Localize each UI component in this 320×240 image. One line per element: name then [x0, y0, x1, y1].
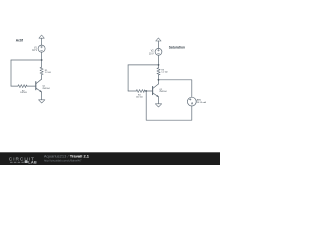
wire to R2 [11, 85, 18, 87]
svg-text:Saturation: Saturation [169, 46, 185, 50]
voltage source V1 [38, 45, 45, 52]
wire Q1 emitter to ground [41, 92, 43, 100]
svg-text:1.2 kΩ: 1.2 kΩ [161, 72, 168, 74]
wire R4 to Q2 base [145, 90, 152, 92]
wire top horizontal left loop [11, 59, 42, 61]
wire collector to ammeter [159, 80, 192, 97]
wire V2 to R3 [158, 55, 160, 68]
svg-text:V2: V2 [151, 51, 155, 53]
voltage source V2 [155, 48, 162, 55]
svg-text:1.2 kΩ: 1.2 kΩ [45, 72, 52, 74]
svg-text:Aquarius213 / Travail 2.1: Aquarius213 / Travail 2.1 [44, 154, 90, 159]
wire left vertical right loop [127, 65, 129, 91]
svg-text:99.13 mA: 99.13 mA [197, 101, 207, 104]
resistor R3 [157, 68, 160, 75]
svg-text:Actif: Actif [16, 38, 24, 42]
ammeter AM1 [187, 97, 196, 106]
svg-text:2N3904: 2N3904 [42, 88, 50, 90]
resistor R2 [18, 85, 27, 88]
svg-text:V1: V1 [34, 47, 38, 49]
wire ammeter down and back to base [146, 91, 192, 120]
wire top horizontal right loop [128, 64, 158, 66]
resistor R4 [136, 90, 145, 93]
wire V1 to R1 [41, 52, 43, 67]
footer bar [0, 152, 220, 165]
wire Q2 emitter to ground [158, 97, 160, 104]
wire to R4 [128, 90, 136, 92]
wire R1 to Q1 collector [41, 75, 43, 80]
svg-text:LAB: LAB [28, 159, 37, 164]
transistor Q2 [152, 87, 154, 95]
ground right [155, 104, 161, 107]
wire R3 to Q2 collector [158, 75, 160, 84]
logo chip icon [25, 161, 28, 163]
svg-text:2N3904: 2N3904 [159, 91, 167, 93]
node B junction dot [158, 64, 160, 66]
node C junction dot base [145, 90, 147, 92]
wire R2 to Q1 base [27, 85, 36, 87]
svg-text:100 kΩ: 100 kΩ [20, 92, 27, 94]
svg-text:10 V: 10 V [149, 53, 154, 55]
wire arrow to V2 [157, 41, 159, 48]
node A junction dot [41, 59, 43, 61]
power flag V1 top arrow [39, 35, 44, 38]
svg-text:10 V: 10 V [32, 50, 37, 52]
resistor R1 [40, 67, 43, 74]
transistor Q1 [35, 82, 37, 90]
svg-text:http://circuitlab.com/c/9dnwf4: http://circuitlab.com/c/9dnwf4i7 [44, 158, 82, 162]
svg-text:100 kΩ: 100 kΩ [136, 97, 143, 99]
wire left vertical [10, 60, 12, 86]
logo stripes [10, 161, 24, 163]
power flag V2 top arrow [156, 38, 161, 41]
ground left [39, 100, 45, 103]
wire arrow to V1 [41, 38, 43, 45]
node D junction dot collector [158, 79, 160, 81]
